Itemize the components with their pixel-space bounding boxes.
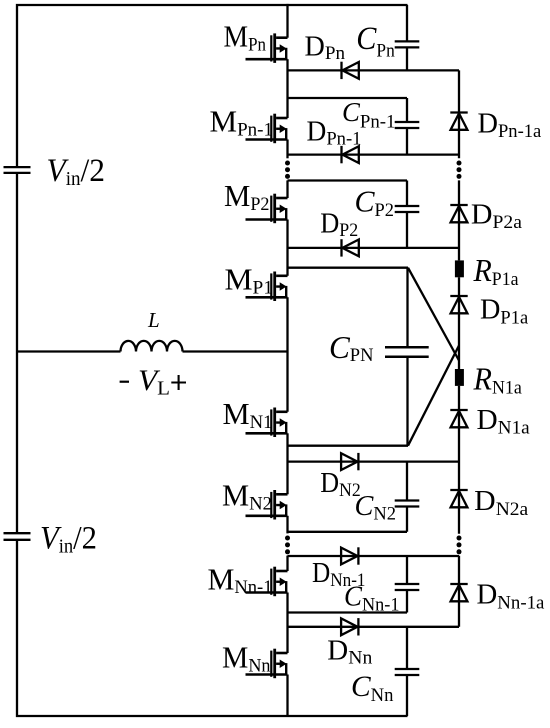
svg-text:Vin/2: Vin/2 xyxy=(47,153,106,190)
capacitor CPN plates xyxy=(385,347,429,357)
svg-text:MN2: MN2 xyxy=(222,478,272,515)
wire main chain: MPn source to MPn-1 drain xyxy=(286,59,288,118)
diode DP2a xyxy=(450,205,467,222)
svg-text:CNn-1: CNn-1 xyxy=(344,582,400,616)
wire cell N2 bottom xyxy=(288,531,408,533)
wire inductor right lead xyxy=(183,350,288,352)
resistor RP1a xyxy=(455,260,464,277)
capacitor CNn-1 xyxy=(395,584,420,590)
svg-text:DNn: DNn xyxy=(327,636,373,669)
wire DNn row xyxy=(288,626,460,628)
svg-text:DN1a: DN1a xyxy=(477,404,531,439)
transistor MN1 xyxy=(246,408,288,438)
wire main chain: dots to MNn-1 drain xyxy=(286,556,288,571)
wire DNn-1 row xyxy=(288,555,460,557)
svg-text:MPn: MPn xyxy=(224,19,267,56)
wire right column seg1 xyxy=(458,70,460,158)
wire main chain: MP1 source to MN1 drain xyxy=(286,297,288,412)
diode DN1a xyxy=(450,410,467,427)
wire main chain: MPn drain xyxy=(286,4,288,38)
capacitor CN2 xyxy=(395,501,420,507)
wire right column seg2 xyxy=(458,180,460,260)
node dots right N-side xyxy=(457,536,462,555)
capacitor CP2 xyxy=(395,206,420,212)
wire left rail top segment with top rail xyxy=(17,5,408,167)
svg-text:DPn: DPn xyxy=(305,31,346,64)
wire CNn leads xyxy=(406,627,408,716)
svg-text:MP1: MP1 xyxy=(225,262,274,299)
svg-text:RP1a: RP1a xyxy=(473,252,519,290)
capacitor CPn xyxy=(395,41,420,47)
wire CN2 leads xyxy=(406,462,408,532)
wire main chain: MN2 source down to dots xyxy=(286,516,288,534)
source capacitor Vin/2 (top) xyxy=(4,167,31,173)
wire CPN box bottom xyxy=(288,445,409,447)
transistor MNn-1 xyxy=(246,567,288,597)
diode DNn xyxy=(341,618,358,635)
wire CPn leads xyxy=(406,5,408,70)
svg-text:DP1a: DP1a xyxy=(480,294,529,329)
svg-text:CPn: CPn xyxy=(356,21,395,62)
transistor MP2 xyxy=(246,194,288,224)
wire diagonal from CPN box top to right column xyxy=(408,268,459,361)
svg-text:DPn-1a: DPn-1a xyxy=(478,108,542,142)
svg-text:MPn-1: MPn-1 xyxy=(210,104,274,141)
svg-text:Vin/2: Vin/2 xyxy=(40,520,97,557)
svg-text:MP2: MP2 xyxy=(224,178,270,215)
wire main chain: MP2 source to MP1 drain xyxy=(286,220,288,276)
wire main chain: MNn source to bottom rail xyxy=(286,675,288,717)
wire cell Pn-1 top xyxy=(288,97,408,99)
wire inductor left lead xyxy=(17,350,121,352)
wire cell P2 top xyxy=(288,179,408,181)
svg-text:CPn-1: CPn-1 xyxy=(342,97,396,133)
label VL with polarity xyxy=(120,381,129,383)
svg-text:DP2: DP2 xyxy=(320,208,358,241)
svg-text:MNn-1: MNn-1 xyxy=(208,561,273,598)
svg-text:DNn-1a: DNn-1a xyxy=(477,579,545,614)
svg-text:VL: VL xyxy=(138,364,170,400)
wire right column seg4 xyxy=(458,386,460,534)
diode DN2 xyxy=(341,453,358,470)
wire right column seg5 xyxy=(458,556,460,627)
wire main chain: dots to MP2 drain xyxy=(286,180,288,198)
transistor MNn xyxy=(246,649,288,679)
wire main chain: MN1 source to MN2 drain xyxy=(286,433,288,494)
wire CPN box top xyxy=(288,267,409,269)
wire main chain: MNn-1 source to MNn drain xyxy=(286,593,288,654)
transistor MP1 xyxy=(246,272,288,302)
svg-text:MN1: MN1 xyxy=(223,396,273,433)
source capacitor Vin/2 (bottom) xyxy=(4,533,31,540)
diode DPn xyxy=(342,62,359,79)
wire diagonal from CPN box bottom to right column xyxy=(408,346,459,446)
svg-text:L: L xyxy=(147,308,160,332)
wire DPn row xyxy=(288,69,460,71)
wire main chain: MPn-1 source down to dots xyxy=(286,140,288,159)
wire left rail bottom segment with bottom rail xyxy=(17,540,408,716)
diode DPn-1a xyxy=(450,113,467,130)
wire left rail middle segment xyxy=(16,173,18,533)
wire CPN leads xyxy=(406,268,408,446)
diode DP1a xyxy=(450,296,467,313)
transistor MPn xyxy=(246,33,288,63)
wire right column seg3 xyxy=(458,277,460,369)
transistor MPn-1 xyxy=(246,114,288,144)
wire CNn-1 leads xyxy=(406,556,408,613)
node dots left N-side xyxy=(285,536,290,555)
wire DN2 row xyxy=(288,460,460,462)
node dots left P-side xyxy=(285,161,290,179)
diode DP2 xyxy=(342,239,359,256)
wire CP2 leads xyxy=(406,181,408,248)
svg-text:DN2a: DN2a xyxy=(474,485,529,520)
svg-text:CN2: CN2 xyxy=(355,490,397,525)
svg-text:CP2: CP2 xyxy=(355,184,395,222)
resistor RN1a xyxy=(455,369,464,386)
inductor L xyxy=(121,341,183,352)
wire cell Nn-1 bottom xyxy=(288,611,408,613)
capacitor CPn-1 xyxy=(395,122,420,128)
transistor MN2 xyxy=(246,490,288,520)
svg-text:DP2a: DP2a xyxy=(471,199,523,233)
node dots right P-side xyxy=(457,161,462,179)
diode DN2a xyxy=(450,490,467,507)
wire DPn-1 row xyxy=(288,153,460,155)
svg-text:RN1a: RN1a xyxy=(473,361,523,399)
wire CPn-1 leads xyxy=(406,98,408,155)
capacitor CNn xyxy=(395,669,420,675)
svg-text:MNn: MNn xyxy=(222,640,271,677)
svg-text:CPN: CPN xyxy=(329,329,374,366)
diode DNn-1 xyxy=(341,547,358,564)
diode DPn-1 xyxy=(342,146,359,163)
diode DNn-1a xyxy=(450,584,467,601)
svg-text:CNn: CNn xyxy=(351,670,394,706)
wire DP2 row xyxy=(288,247,460,249)
